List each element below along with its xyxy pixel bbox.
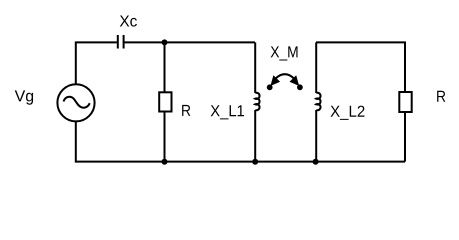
wire middle branch top (junction to resistor) bbox=[164, 42, 166, 92]
junction top middle bbox=[162, 39, 168, 45]
inductor L2 X_L2 bbox=[316, 42, 320, 161]
svg-text:R: R bbox=[181, 103, 191, 120]
capacitor Xc bbox=[118, 35, 124, 49]
coupling dot left bbox=[267, 84, 273, 90]
coupling arrowhead right bbox=[290, 75, 300, 86]
svg-text:R: R bbox=[436, 89, 446, 106]
wire top rail (capacitor to X_L1 top corner) bbox=[125, 41, 256, 43]
junction bottom middle bbox=[162, 159, 168, 165]
svg-text:X_M: X_M bbox=[270, 44, 299, 61]
wire source bottom to bottom rail bbox=[76, 121, 405, 161]
coupling arrowhead left bbox=[270, 75, 280, 86]
wire top rail right loop bbox=[316, 42, 405, 92]
inductor L1 X_L1 bbox=[255, 42, 259, 161]
wire middle branch bottom bbox=[164, 112, 166, 162]
wire top rail left (corner to capacitor) bbox=[76, 42, 117, 83]
svg-text:Vg: Vg bbox=[15, 88, 35, 105]
svg-text:X_L1: X_L1 bbox=[210, 103, 245, 120]
coupling arc X_M bbox=[276, 74, 295, 78]
resistor R2 bbox=[399, 92, 411, 112]
svg-text:X_L2: X_L2 bbox=[330, 104, 365, 121]
wire right side bottom bbox=[404, 112, 406, 162]
source Vg bbox=[57, 84, 94, 121]
junction bottom L2 bbox=[313, 159, 319, 165]
resistor R1 bbox=[159, 92, 171, 111]
coupling dot right bbox=[297, 84, 303, 90]
junction bottom L1 bbox=[252, 159, 258, 165]
svg-text:Xc: Xc bbox=[119, 14, 137, 31]
